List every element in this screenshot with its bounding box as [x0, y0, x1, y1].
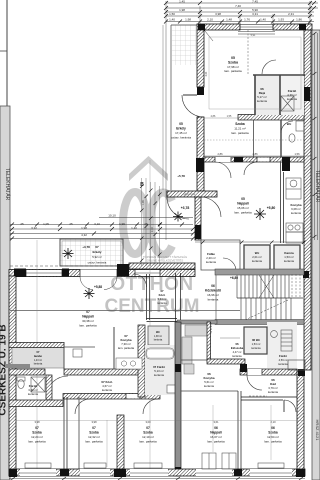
- svg-text:06: 06: [271, 426, 275, 430]
- svg-text:5,92 m²: 5,92 m²: [92, 255, 102, 259]
- svg-text:10,10: 10,10: [108, 214, 116, 218]
- svg-text:12,24 m²: 12,24 m²: [31, 435, 43, 439]
- svg-text:kerámia: kerámia: [232, 354, 242, 358]
- svg-text:csúsz. kerámia: csúsz. kerámia: [171, 136, 191, 140]
- svg-text:+6,80: +6,80: [230, 276, 238, 280]
- svg-text:5,34 m²: 5,34 m²: [158, 297, 167, 301]
- svg-text:15,06 m²: 15,06 m²: [237, 206, 249, 210]
- svg-text:pálya korlát: pálya korlát: [183, 193, 196, 196]
- svg-text:lam. parketta: lam. parketta: [234, 211, 252, 215]
- svg-text:kerámia: kerámia: [154, 373, 164, 377]
- svg-text:+5,78: +5,78: [177, 174, 185, 178]
- svg-text:lam. parketta: lam. parketta: [231, 131, 249, 135]
- svg-text:Nappali: Nappali: [237, 202, 249, 206]
- svg-text:CSERKESZ U. 19 B: CSERKESZ U. 19 B: [0, 324, 9, 415]
- svg-text:12,32 m²: 12,32 m²: [88, 435, 100, 439]
- svg-text:11,21 m²: 11,21 m²: [234, 127, 246, 131]
- svg-text:1,48: 1,48: [226, 18, 232, 22]
- svg-text:4,59 m²: 4,59 m²: [279, 358, 288, 362]
- svg-text:1,76: 1,76: [244, 18, 250, 22]
- svg-text:Erkély: Erkély: [92, 250, 101, 254]
- svg-text:kerámia: kerámia: [204, 384, 214, 388]
- svg-text:Szoba: Szoba: [228, 61, 238, 65]
- svg-text:lam. parketta: lam. parketta: [139, 440, 157, 444]
- svg-text:17,45 m²: 17,45 m²: [175, 131, 187, 135]
- svg-text:1,40: 1,40: [260, 18, 266, 22]
- svg-text:07: 07: [146, 426, 150, 430]
- svg-text:kerámia: kerámia: [206, 260, 216, 264]
- svg-text:lam. parketta: lam. parketta: [79, 324, 97, 328]
- svg-text:TELEKHATÁR: TELEKHATÁR: [4, 168, 11, 201]
- svg-text:1,40: 1,40: [131, 226, 137, 230]
- svg-text:+5,88: +5,88: [94, 285, 102, 289]
- svg-text:1,96: 1,96: [119, 222, 125, 226]
- svg-text:05: 05: [231, 56, 235, 60]
- svg-text:kerámia: kerámia: [287, 97, 297, 101]
- svg-text:1,40: 1,40: [169, 18, 175, 22]
- svg-text:kerámia: kerámia: [268, 390, 278, 394]
- svg-text:2,86: 2,86: [217, 152, 223, 156]
- svg-text:kerámia: kerámia: [251, 346, 261, 350]
- svg-text:TELEKHATÁR: TELEKHATÁR: [314, 170, 320, 203]
- svg-text:kerámia: kerámia: [252, 259, 262, 263]
- svg-text:07: 07: [92, 426, 96, 430]
- svg-text:Szoba: Szoba: [235, 122, 245, 126]
- svg-text:3,31: 3,31: [252, 12, 258, 16]
- svg-text:3,98: 3,98: [215, 12, 221, 16]
- svg-text:kerámia: kerámia: [291, 211, 301, 215]
- svg-text:lam. parketta: lam. parketta: [207, 440, 225, 444]
- svg-text:Szoba: Szoba: [268, 431, 278, 435]
- svg-text:kerámia: kerámia: [278, 362, 288, 366]
- svg-text:1,93: 1,93: [278, 18, 284, 22]
- svg-text:06: 06: [214, 426, 218, 430]
- svg-text:HRSZ 4121: HRSZ 4121: [315, 420, 320, 442]
- svg-text:Szoba: Szoba: [32, 431, 42, 435]
- svg-text:1,98: 1,98: [185, 18, 191, 22]
- svg-text:7,40: 7,40: [235, 4, 241, 8]
- svg-text:+5,80: +5,80: [267, 206, 276, 210]
- svg-text:2,31: 2,31: [288, 12, 294, 16]
- svg-text:csúsz. kerámia: csúsz. kerámia: [88, 261, 107, 265]
- svg-text:3,10: 3,10: [94, 222, 100, 226]
- svg-text:16,96 m²: 16,96 m²: [207, 293, 219, 297]
- svg-text:lam. parketta: lam. parketta: [85, 440, 103, 444]
- svg-text:12,64 m²: 12,64 m²: [267, 435, 279, 439]
- svg-text:Közlekedő: Közlekedő: [205, 289, 221, 293]
- svg-text:3,04: 3,04: [205, 71, 208, 76]
- svg-text:1,55: 1,55: [227, 115, 232, 118]
- svg-text:kerámia: kerámia: [208, 298, 219, 302]
- svg-text:+3,78: +3,78: [181, 206, 190, 210]
- svg-text:2,86: 2,86: [252, 152, 258, 156]
- svg-text:1,50: 1,50: [169, 12, 175, 16]
- svg-text:Nappali: Nappali: [82, 315, 94, 319]
- svg-text:lam. parketta: lam. parketta: [28, 440, 46, 444]
- svg-text:1,05: 1,05: [43, 222, 49, 226]
- svg-text:ONLINE HITELKÖZVETÍTÉS: ONLINE HITELKÖZVETÍTÉS: [147, 258, 184, 263]
- svg-text:06: 06: [211, 284, 215, 288]
- svg-text:kerámia: kerámia: [284, 259, 294, 263]
- svg-text:1,45: 1,45: [179, 0, 185, 4]
- svg-text:Szoba: Szoba: [143, 431, 153, 435]
- svg-text:CENTRUM: CENTRUM: [105, 296, 200, 317]
- svg-text:12,10 m²: 12,10 m²: [142, 435, 154, 439]
- svg-text:1,98: 1,98: [81, 226, 87, 230]
- svg-text:lam. parketta: lam. parketta: [264, 440, 282, 444]
- svg-text:25: 25: [20, 222, 24, 226]
- svg-text:07: 07: [35, 426, 39, 430]
- svg-text:30,38 m²: 30,38 m²: [82, 319, 94, 323]
- svg-text:2,10: 2,10: [151, 227, 154, 232]
- svg-text:Wc: Wc: [156, 330, 160, 334]
- svg-text:Nappali: Nappali: [210, 431, 222, 435]
- svg-text:lam. parketta: lam. parketta: [118, 346, 135, 350]
- svg-text:Előszoba: Előszoba: [231, 346, 244, 350]
- svg-text:5,91: 5,91: [251, 34, 256, 37]
- svg-text:1,86: 1,86: [296, 18, 302, 22]
- svg-text:kerámia: kerámia: [157, 301, 167, 305]
- svg-text:lam. parketta: lam. parketta: [224, 69, 242, 73]
- svg-text:OTTHON: OTTHON: [110, 274, 193, 295]
- svg-text:Erkély: Erkély: [176, 127, 186, 131]
- svg-text:kerámia: kerámia: [34, 363, 43, 366]
- svg-text:2,10: 2,10: [207, 18, 213, 22]
- svg-text:25: 25: [69, 222, 73, 226]
- svg-text:lavabo: lavabo: [34, 354, 43, 358]
- svg-text:1,98: 1,98: [142, 200, 145, 205]
- svg-text:kerámia: kerámia: [257, 99, 267, 103]
- svg-text:2,86: 2,86: [211, 115, 216, 118]
- svg-text:Fürdő: Fürdő: [279, 354, 287, 358]
- svg-text:kerámia: kerámia: [102, 388, 112, 392]
- svg-text:05: 05: [241, 197, 245, 201]
- svg-text:kerámia: kerámia: [28, 392, 38, 396]
- svg-text:7,45: 7,45: [252, 0, 258, 4]
- svg-text:16,07 m²: 16,07 m²: [210, 435, 222, 439]
- svg-text:1,53 m²: 1,53 m²: [252, 342, 261, 346]
- svg-text:Szoba: Szoba: [89, 431, 99, 435]
- svg-text:kerámia: kerámia: [154, 339, 163, 342]
- svg-text:1,56: 1,56: [294, 152, 300, 156]
- svg-text:4,32: 4,32: [81, 233, 87, 237]
- svg-text:05: 05: [179, 122, 183, 126]
- svg-text:Közl.: Közl.: [159, 293, 166, 297]
- svg-text:Wc: Wc: [287, 122, 292, 126]
- svg-text:06 Wc: 06 Wc: [252, 338, 261, 342]
- svg-text:+3,78: +3,78: [82, 245, 90, 249]
- svg-text:3,32: 3,32: [31, 226, 37, 230]
- svg-text:07: 07: [95, 245, 99, 249]
- svg-text:1,98: 1,98: [179, 8, 185, 12]
- svg-text:4,47 m²: 4,47 m²: [233, 350, 242, 354]
